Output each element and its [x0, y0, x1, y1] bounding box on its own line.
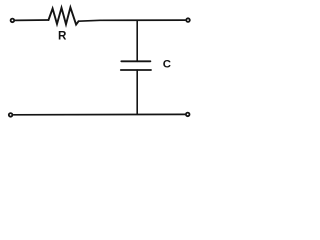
svg-text:R: R [58, 30, 67, 43]
svg-text:C: C [163, 59, 171, 71]
